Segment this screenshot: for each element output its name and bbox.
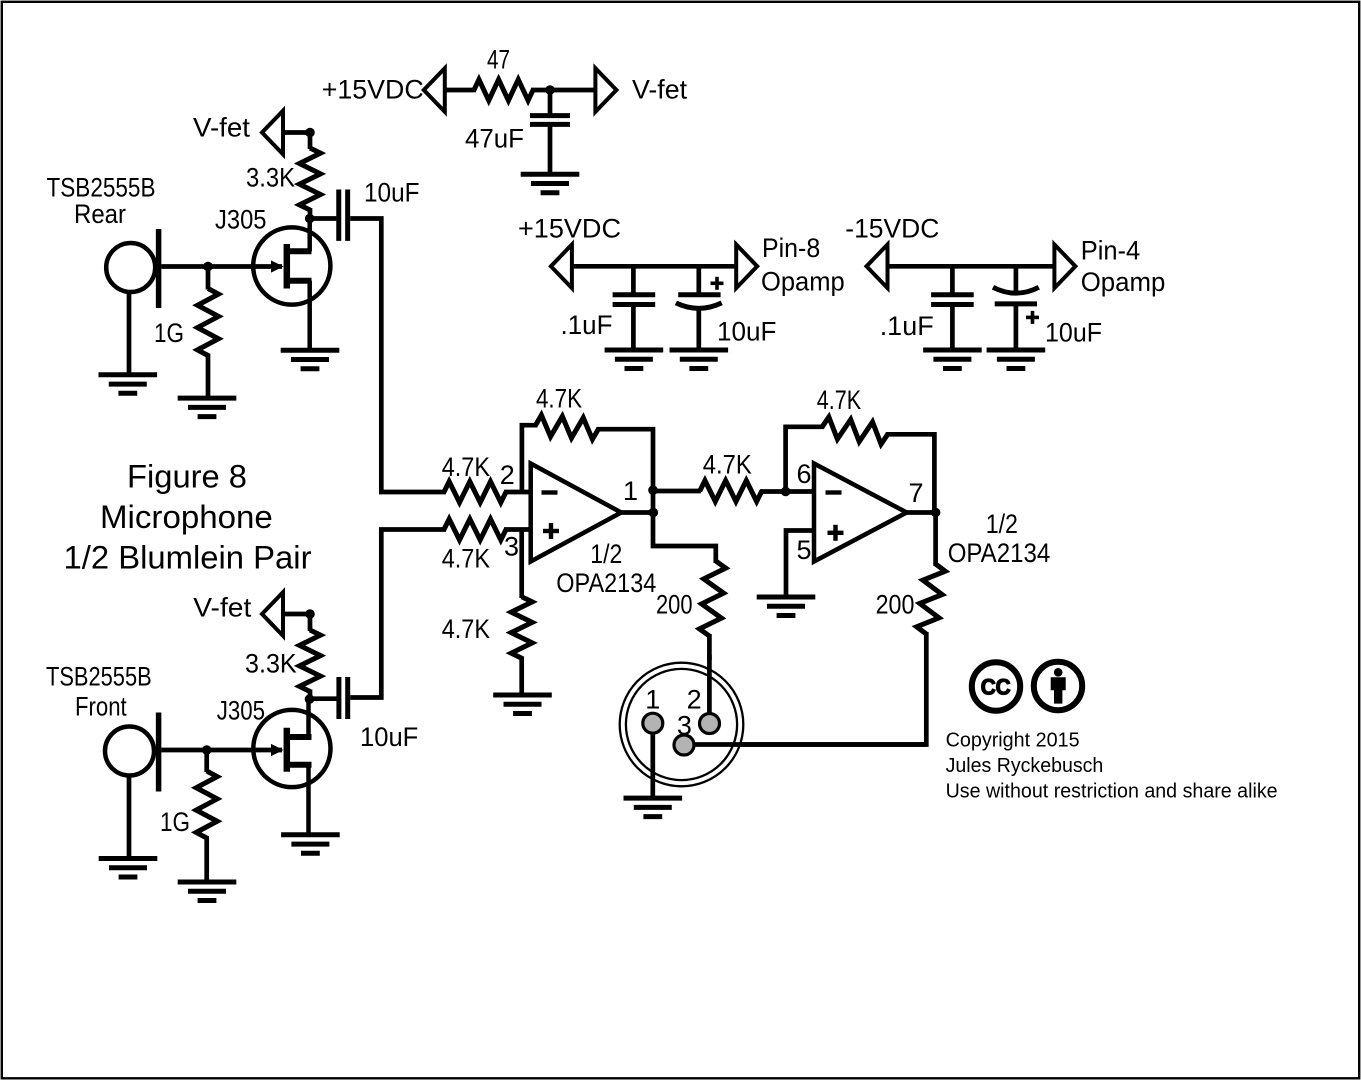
wire V-fet arrow to node <box>283 612 312 617</box>
wire op1 output vertical link <box>651 488 656 513</box>
svg-text:10uF: 10uF <box>364 178 420 208</box>
ground (XLR pin 1) <box>624 796 683 801</box>
svg-text:Jules Ryckebusch: Jules Ryckebusch <box>946 755 1104 777</box>
wire rear trunk down to op-amp input <box>350 219 446 493</box>
node rear gate / 1G <box>203 262 213 272</box>
wire front mic to ground <box>127 775 132 860</box>
svg-text:1/2 Blumlein Pair: 1/2 Blumlein Pair <box>64 540 312 576</box>
svg-text:Opamp: Opamp <box>1081 267 1166 297</box>
wire pin3 riser down to R 4.7K gnd <box>519 530 524 599</box>
capacitor .1uF (+rail) <box>631 266 636 292</box>
op-amp U1A 1/2 OPA2134 <box>531 464 622 562</box>
resistor R 4.7K (pin 3 input) <box>444 519 506 540</box>
wire XLR pin 3 feed <box>684 742 926 747</box>
ground (rear 1G) <box>178 396 237 401</box>
ground (op1 pin3 R) <box>493 693 552 698</box>
resistor R 4.7K interstage <box>700 481 762 502</box>
svg-text:V-fet: V-fet <box>193 113 251 143</box>
ground (rear mic) <box>99 372 158 377</box>
svg-text:47uF: 47uF <box>465 124 524 154</box>
svg-text:CC: CC <box>981 674 1011 699</box>
svg-text:Microphone: Microphone <box>100 499 273 535</box>
resistor R 4.7K feedback 2 <box>822 417 888 444</box>
svg-text:Pin-8: Pin-8 <box>762 233 820 263</box>
resistor R 3.3K front <box>308 614 313 631</box>
ground (47uF) <box>521 172 580 177</box>
svg-text:Use without restriction and sh: Use without restriction and share alike <box>946 781 1278 803</box>
svg-text:47: 47 <box>487 45 510 75</box>
ground (front FET source) <box>281 832 340 837</box>
mic capsule TSB2555B Front <box>105 727 154 776</box>
XLR connector inner circle <box>626 669 737 780</box>
node op1 output <box>649 508 659 518</box>
wire feedback to output corner <box>596 429 653 490</box>
wire -15VDC rail <box>888 264 1055 269</box>
wire front trunk up to op-amp input <box>350 530 446 698</box>
node rear FET drain <box>305 214 315 224</box>
wire 200 down to XLR pin 3 wire <box>686 632 926 745</box>
node front 3.3K top <box>305 609 315 619</box>
svg-text:1G: 1G <box>160 807 190 837</box>
svg-text:4.7K: 4.7K <box>536 384 582 414</box>
svg-text:.1uF: .1uF <box>880 311 934 341</box>
resistor R 4.7K to ground <box>511 597 532 659</box>
svg-text:3.3K: 3.3K <box>245 649 297 679</box>
svg-text:1: 1 <box>645 685 660 715</box>
node rear 3.3K top <box>305 128 315 138</box>
wire 200 down to XLR pin 2 <box>707 634 712 660</box>
net Pin-4 Opamp (arrow) <box>1054 245 1075 289</box>
svg-text:Rear: Rear <box>74 199 126 229</box>
svg-text:10uF: 10uF <box>717 317 777 347</box>
net V-fet (top rail, right arrow) <box>595 68 616 112</box>
capacitor 10uF polarized (-rail) <box>1014 266 1019 292</box>
node front gate / 1G <box>202 745 212 755</box>
svg-text:4.7K: 4.7K <box>442 544 490 574</box>
capacitor .1uF (-rail) <box>950 266 955 292</box>
svg-text:OPA2134: OPA2134 <box>948 538 1051 568</box>
svg-text:10uF: 10uF <box>1045 318 1102 348</box>
ground (front 1G) <box>178 880 237 885</box>
svg-text:TSB2555B: TSB2555B <box>46 662 152 692</box>
net +15VDC (mid rail) <box>551 245 572 289</box>
ground (.1uF -rail) <box>923 348 982 353</box>
wire rear mic to gate with arrow <box>161 264 282 269</box>
svg-text:10uF: 10uF <box>360 722 418 752</box>
wire front mic to gate with arrow <box>161 748 282 753</box>
wire node to capacitor 47uF <box>548 87 553 116</box>
ground (.1uF +rail) <box>605 348 664 353</box>
svg-text:7: 7 <box>908 478 923 508</box>
wire XLR pin 1 to ground <box>650 723 655 797</box>
wire feedback riser (pin2 up) <box>522 425 538 492</box>
node front FET drain <box>305 694 315 704</box>
op-amp U1B 1/2 OPA2134 <box>814 464 907 562</box>
node junction top rail <box>545 85 555 95</box>
svg-text:V-fet: V-fet <box>632 75 687 105</box>
svg-text:2: 2 <box>500 460 515 490</box>
mic capsule TSB2555B Rear <box>106 243 155 292</box>
svg-text:+15VDC: +15VDC <box>322 75 424 105</box>
wire R to op-amp pin 3 <box>504 527 531 532</box>
capacitor 10uF polarized (+rail) <box>696 266 701 293</box>
resistor R 1G front <box>204 750 209 772</box>
wire op2 output <box>907 510 938 515</box>
svg-text:Pin-4: Pin-4 <box>1081 236 1141 266</box>
svg-text:OPA2134: OPA2134 <box>556 568 656 598</box>
net +15VDC (top rail, left arrow) <box>424 68 445 112</box>
svg-text:4.7K: 4.7K <box>442 614 490 644</box>
XLR pin 3 <box>674 735 694 755</box>
resistor R 3.3K rear <box>308 133 313 150</box>
net -15VDC (mid rail) <box>867 245 888 289</box>
ground (op2 pin5) <box>757 595 816 600</box>
ground (rear FET source) <box>281 348 340 353</box>
wire R to op-amp pin 2 <box>504 490 531 495</box>
wire interstage (node to R 4.7K) <box>653 489 701 494</box>
svg-text:200: 200 <box>876 590 915 620</box>
resistor R 4.7K (pin 2 input) <box>444 482 506 503</box>
wire mic to ground <box>127 291 132 376</box>
svg-text:4.7K: 4.7K <box>703 450 752 480</box>
svg-text:4.7K: 4.7K <box>442 452 490 482</box>
wire feedback 2 to output corner <box>886 434 935 512</box>
svg-text:-15VDC: -15VDC <box>845 214 939 244</box>
svg-text:Front: Front <box>75 692 127 722</box>
XLR pin 1 <box>643 713 663 733</box>
svg-text:3.3K: 3.3K <box>246 163 295 193</box>
svg-text:200: 200 <box>656 590 693 620</box>
svg-text:V-fet: V-fet <box>193 593 252 623</box>
node op1 feedback <box>648 485 658 495</box>
XLR pin 2 <box>700 714 720 734</box>
node op2 output <box>931 508 941 518</box>
svg-text:6: 6 <box>796 459 811 489</box>
resistor 47 <box>474 80 533 101</box>
net V-fet (rear channel arrow) <box>262 111 283 155</box>
icon CC circle <box>972 662 1020 710</box>
wire 47uF to ground <box>548 124 553 174</box>
capacitor 10uF rear (coupling) <box>310 216 336 221</box>
svg-text:1G: 1G <box>154 318 184 348</box>
ground (10uF -rail) <box>987 348 1046 353</box>
resistor R 1G rear <box>206 267 211 290</box>
wire output to 200 R (down-right) <box>653 513 716 564</box>
resistor R 200 (to XLR pin 2) <box>699 561 725 636</box>
svg-text:3: 3 <box>504 532 519 562</box>
net Pin-8 Opamp (arrow) <box>736 245 757 289</box>
svg-text:+15VDC: +15VDC <box>518 214 621 244</box>
svg-text:1/2: 1/2 <box>590 539 622 569</box>
wire R47 to node V-fet <box>531 88 596 93</box>
svg-text:J305: J305 <box>217 696 265 726</box>
svg-text:.1uF: .1uF <box>561 310 613 340</box>
svg-text:J305: J305 <box>215 205 267 235</box>
svg-text:Opamp: Opamp <box>761 267 845 297</box>
svg-text:1/2: 1/2 <box>986 509 1018 539</box>
svg-text:TSB2555B: TSB2555B <box>47 173 156 203</box>
svg-text:5: 5 <box>796 535 811 565</box>
wire feedback riser 2 <box>786 427 825 492</box>
node op2 pin6 / feedback 2 <box>781 487 791 497</box>
svg-text:Figure 8: Figure 8 <box>127 459 247 495</box>
wire op1 output <box>621 510 655 515</box>
ground (10uF +rail) <box>670 348 729 353</box>
wire pin 5 to ground <box>786 531 814 598</box>
svg-text:4.7K: 4.7K <box>817 385 861 415</box>
wire R to ground <box>519 656 524 696</box>
capacitor 47uF <box>530 113 570 118</box>
wire V-fet arrow to node <box>283 130 312 135</box>
wire XLR pin 2 drop <box>707 655 712 724</box>
wire R to op2 pin 6 <box>760 489 814 494</box>
svg-text:Copyright 2015: Copyright 2015 <box>946 730 1080 752</box>
ground (front mic) <box>99 856 158 861</box>
XLR connector outer circle <box>620 663 744 787</box>
resistor R 4.7K feedback 1 <box>536 415 599 439</box>
net V-fet (front channel arrow) <box>262 592 283 636</box>
icon CC-BY person circle <box>1034 662 1082 710</box>
capacitor 10uF front (coupling) <box>310 696 337 701</box>
svg-text:1: 1 <box>623 476 638 506</box>
wire +15VDC rail <box>572 264 737 269</box>
resistor R 200 (op2 output) <box>933 513 938 567</box>
svg-text:3: 3 <box>677 711 692 741</box>
wire +15VDC to R 47 <box>445 88 476 93</box>
